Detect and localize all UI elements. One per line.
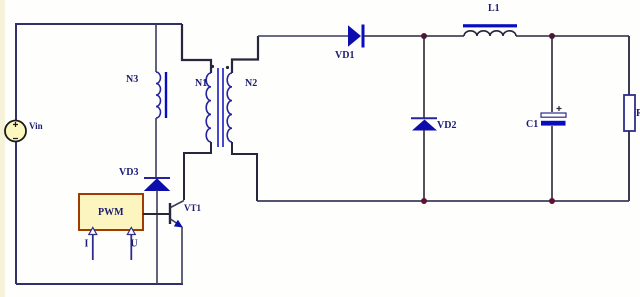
wire bottom rail primary [16, 283, 183, 285]
svg-text:VD3: VD3 [119, 167, 138, 178]
polarity dot N2 [226, 66, 229, 69]
wire N2 bottom pin [232, 142, 257, 201]
PWM controller [79, 194, 143, 230]
wire rail node A to L1 [424, 35, 464, 37]
wire emitter [181, 227, 183, 284]
wire N3 branch lower [155, 118, 157, 178]
resistor R [624, 95, 635, 131]
junction node A [421, 33, 427, 39]
wire rail node B to right [552, 35, 629, 37]
wire top rail primary [16, 23, 182, 25]
wire right rail lower [628, 131, 630, 201]
svg-text:VD2: VD2 [437, 120, 456, 131]
svg-text:N2: N2 [245, 78, 257, 89]
wire N1 bottom pin [184, 142, 211, 200]
svg-text:C1: C1 [526, 119, 538, 130]
transformer core [218, 68, 223, 147]
wire C1 lower [551, 126, 553, 201]
wire rail VD1 to node A [364, 35, 424, 37]
wire N2 top pin [232, 36, 258, 73]
winding N1 [206, 73, 211, 142]
arrow U [127, 228, 135, 261]
wire rail L1 to node B [516, 35, 552, 37]
voltage source Vin [5, 121, 26, 142]
wire secondary bottom rail [257, 200, 629, 202]
polarity dot N1 [211, 65, 214, 68]
svg-text:VD1: VD1 [335, 50, 354, 61]
svg-text:Vin: Vin [29, 121, 43, 131]
junction node C [421, 198, 427, 204]
junction node D [549, 198, 555, 204]
transistor VT1 [170, 201, 184, 228]
inductor L1 [463, 24, 517, 36]
winding N2 [227, 73, 232, 142]
wire left primary upper [15, 23, 17, 121]
svg-text:PWM: PWM [98, 207, 124, 218]
wire C1 upper [551, 36, 553, 112]
svg-text:N1: N1 [195, 78, 207, 89]
wire right rail upper [628, 36, 630, 95]
diode VD2 [411, 118, 437, 130]
svg-text:N3: N3 [126, 74, 138, 85]
wire N1 top pin [182, 24, 211, 73]
wire left primary lower [15, 141, 17, 284]
capacitor C1 [541, 106, 566, 126]
arrow I [89, 228, 97, 261]
junction node B [549, 33, 555, 39]
wire VD3 to base junction and bottom [156, 190, 158, 284]
diode VD3 [144, 178, 170, 191]
wire VD2 lower [423, 130, 425, 201]
svg-text:R: R [636, 108, 640, 119]
wire VD2 upper [423, 36, 425, 118]
core N3 [165, 72, 167, 118]
diode VD1 [348, 25, 363, 48]
wire secondary rail to VD1 [258, 35, 348, 37]
svg-text:U: U [131, 239, 138, 250]
svg-text:I: I [85, 239, 89, 250]
wire N3 branch upper [155, 24, 157, 72]
svg-text:VT1: VT1 [184, 203, 202, 213]
wire base [143, 213, 169, 215]
winding N3 [156, 72, 161, 118]
svg-text:L1: L1 [488, 3, 500, 14]
wire collector [183, 152, 185, 200]
